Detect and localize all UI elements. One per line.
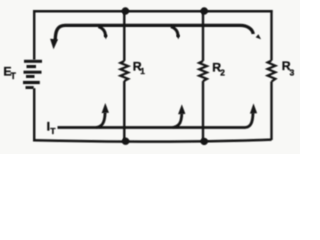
svg-text:1: 1	[140, 66, 145, 76]
svg-text:T: T	[50, 126, 56, 136]
svg-text:2: 2	[220, 67, 225, 77]
svg-text:T: T	[11, 71, 17, 81]
svg-text:3: 3	[290, 68, 295, 78]
